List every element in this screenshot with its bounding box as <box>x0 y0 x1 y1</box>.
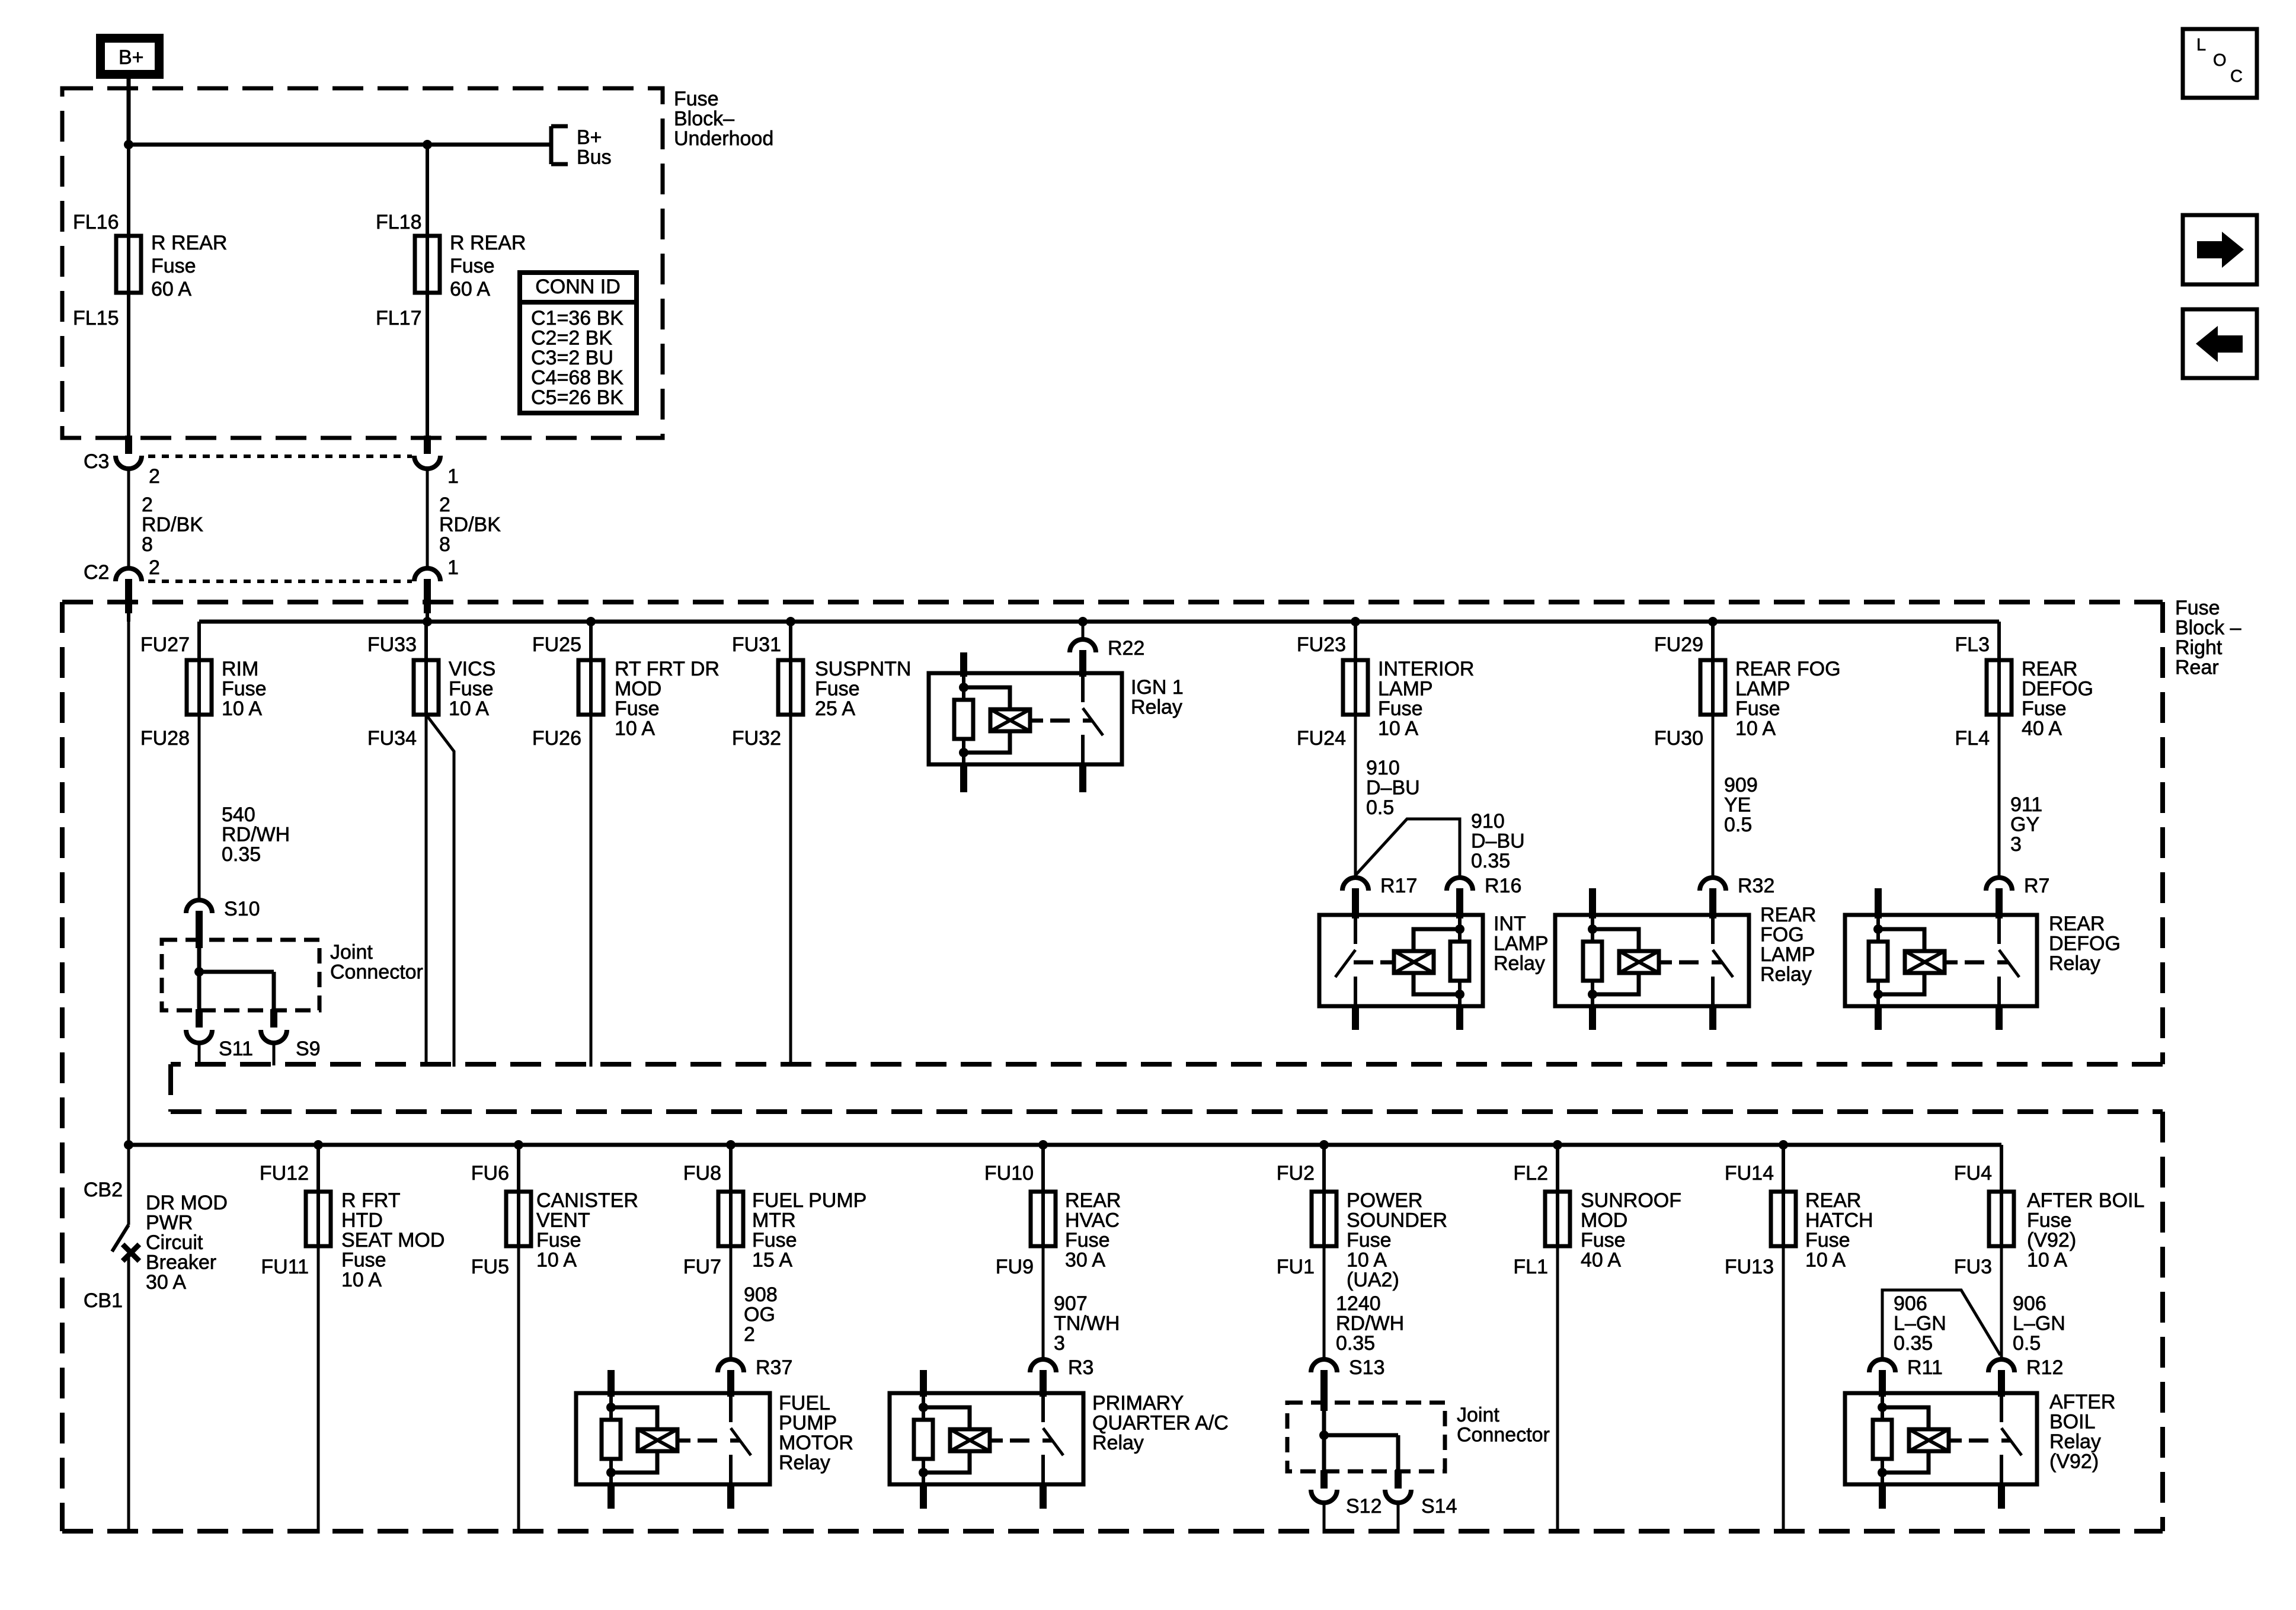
svg-text:907: 907 <box>1054 1292 1088 1315</box>
label VICS Fuse 10 A <box>449 658 495 720</box>
wire feed to fuse FU14 <box>1782 1145 1785 1192</box>
wire feed to fuse FU31 <box>789 622 792 660</box>
svg-text:FU34: FU34 <box>367 727 417 750</box>
svg-text:MTR: MTR <box>752 1209 796 1232</box>
svg-text:C: C <box>2230 67 2243 86</box>
svg-text:SUNROOF: SUNROOF <box>1581 1189 1681 1212</box>
svg-text:Right: Right <box>2175 636 2223 659</box>
svg-text:908: 908 <box>744 1283 778 1306</box>
fuse FU10/FU9 REAR HVAC 30 A <box>1031 1190 1056 1247</box>
svg-text:Relay: Relay <box>779 1452 830 1474</box>
svg-text:906: 906 <box>2013 1292 2046 1315</box>
svg-text:VICS: VICS <box>449 658 495 680</box>
svg-text:Circuit: Circuit <box>146 1231 203 1254</box>
svg-text:1: 1 <box>447 465 459 488</box>
svg-text:Fuse: Fuse <box>2175 597 2220 619</box>
svg-text:Fuse: Fuse <box>815 678 860 700</box>
svg-text:Breaker: Breaker <box>146 1251 216 1274</box>
svg-text:Block –: Block – <box>2175 617 2241 639</box>
relay AFTER BOIL (V92) <box>1845 1370 2115 1509</box>
svg-text:FL18: FL18 <box>376 211 422 233</box>
svg-text:HVAC: HVAC <box>1065 1209 1120 1232</box>
svg-text:LAMP: LAMP <box>1494 933 1549 955</box>
wire S11 down <box>198 1043 201 1065</box>
label FU14 <box>1725 1162 1774 1185</box>
svg-text:FU29: FU29 <box>1654 633 1703 656</box>
svg-text:10 A: 10 A <box>449 697 489 720</box>
wire 910 D-BU 0.5 <box>1355 715 1420 878</box>
svg-text:DR MOD: DR MOD <box>146 1192 228 1214</box>
dotted connector line C2 <box>148 580 412 583</box>
svg-text:FU23: FU23 <box>1297 633 1346 656</box>
svg-text:FU5: FU5 <box>471 1256 509 1278</box>
label FU10 <box>984 1162 1034 1185</box>
svg-text:FU24: FU24 <box>1297 727 1346 750</box>
svg-text:30 A: 30 A <box>146 1271 186 1294</box>
wire joint connector internal 2 <box>1324 1435 1398 1471</box>
junction dot feed/R22 <box>1078 617 1088 626</box>
label FU1 <box>1277 1256 1315 1278</box>
svg-text:FU8: FU8 <box>683 1162 721 1185</box>
svg-text:(V92): (V92) <box>2027 1229 2076 1251</box>
wire S12 down <box>1323 1503 1326 1534</box>
fuse block underhood dashed outline <box>62 88 663 438</box>
junction dot joint connector 2 <box>1319 1430 1329 1440</box>
label FU29 <box>1654 633 1703 656</box>
joint connector box (S13/S12/S14) <box>1287 1370 1445 1471</box>
svg-text:OG: OG <box>744 1304 775 1326</box>
svg-text:FU11: FU11 <box>261 1256 309 1278</box>
label FU4 <box>1954 1162 1992 1185</box>
svg-text:CONN ID: CONN ID <box>535 276 621 298</box>
svg-text:LAMP: LAMP <box>1735 678 1790 700</box>
svg-text:C1=36 BK: C1=36 BK <box>531 307 623 329</box>
svg-text:Relay: Relay <box>1131 696 1182 719</box>
svg-text:D–BU: D–BU <box>1366 777 1420 799</box>
svg-text:FU7: FU7 <box>683 1256 721 1278</box>
svg-text:AFTER: AFTER <box>2049 1391 2115 1413</box>
junction dot feed/FU8 <box>726 1140 736 1150</box>
svg-text:Fuse: Fuse <box>2027 1209 2072 1232</box>
svg-text:REAR: REAR <box>1805 1189 1861 1212</box>
label CANISTER VENT Fuse 10 A <box>536 1189 638 1272</box>
label FU12 <box>260 1162 309 1185</box>
junction dot feed/FL2 <box>1553 1140 1562 1150</box>
wire C2 to breaker <box>127 622 130 1225</box>
svg-text:CB2: CB2 <box>84 1179 123 1201</box>
svg-text:910: 910 <box>1471 810 1505 833</box>
fuse FU14/FU13 REAR HATCH 10 A <box>1771 1190 1796 1247</box>
svg-text:3: 3 <box>1054 1332 1065 1355</box>
label REAR HVAC Fuse 30 A <box>1065 1189 1121 1272</box>
svg-text:Connector: Connector <box>1457 1424 1550 1446</box>
svg-text:FL3: FL3 <box>1955 633 1990 656</box>
junction dot feed/FU25 <box>586 617 596 626</box>
wire feed to fuse FU10 <box>1041 1145 1045 1192</box>
svg-text:910: 910 <box>1366 757 1400 779</box>
splice S12 <box>1311 1470 1382 1518</box>
svg-text:DEFOG: DEFOG <box>2049 933 2121 955</box>
junction dot feed/FU23 <box>1351 617 1360 626</box>
svg-text:FU9: FU9 <box>996 1256 1034 1278</box>
wire 908 OG 2 <box>731 1246 778 1359</box>
junction dot feed/CB <box>124 1140 133 1150</box>
svg-text:10 A: 10 A <box>1735 718 1776 740</box>
node B+ bus junction dot <box>124 140 133 149</box>
svg-text:R11: R11 <box>1907 1356 1943 1379</box>
svg-text:L–GN: L–GN <box>2013 1313 2065 1335</box>
svg-text:Fuse: Fuse <box>536 1229 581 1251</box>
label FU23 <box>1297 633 1346 656</box>
svg-text:(UA2): (UA2) <box>1347 1269 1399 1291</box>
svg-text:FL4: FL4 <box>1955 727 1990 750</box>
svg-text:FL17: FL17 <box>376 307 422 329</box>
svg-text:B+: B+ <box>577 126 602 149</box>
wire FU26 down <box>590 715 593 1067</box>
svg-text:RD/WH: RD/WH <box>1336 1313 1404 1335</box>
label Fuse Block - Right Rear <box>2175 597 2241 679</box>
svg-text:CANISTER: CANISTER <box>536 1189 638 1212</box>
svg-text:C5=26 BK: C5=26 BK <box>531 386 623 409</box>
svg-text:O: O <box>2213 51 2227 70</box>
fuse FU4/FU3 AFTER BOIL 10 A (V92) <box>1989 1190 2014 1247</box>
svg-text:QUARTER A/C: QUARTER A/C <box>1092 1412 1229 1435</box>
wire FU32 down <box>789 715 792 1067</box>
label FL3 <box>1955 633 1990 656</box>
svg-text:60 A: 60 A <box>151 278 191 300</box>
wire S14 down <box>1397 1503 1400 1534</box>
label FU34 <box>367 727 417 750</box>
wire feed to fuse FU27 <box>197 622 201 660</box>
svg-text:MOD: MOD <box>615 678 661 700</box>
splice arc R11 <box>1869 1356 1943 1379</box>
svg-text:C2=2 BK: C2=2 BK <box>531 327 612 350</box>
svg-text:Fuse: Fuse <box>2022 697 2067 720</box>
svg-text:Relay: Relay <box>2049 1430 2101 1453</box>
svg-text:C3: C3 <box>84 450 109 473</box>
wire 2 RD/BK 8 (right) <box>427 469 501 568</box>
wire bottom feed line <box>129 1143 2001 1147</box>
svg-text:(V92): (V92) <box>2049 1451 2099 1473</box>
svg-text:30 A: 30 A <box>1065 1249 1105 1272</box>
svg-text:Fuse: Fuse <box>1347 1229 1392 1251</box>
fuse FL3/FL4 REAR DEFOG 40 A <box>1987 659 2012 716</box>
label AFTER BOIL Fuse (V92) 10 A <box>2027 1189 2144 1272</box>
label INTERIOR LAMP Fuse 10 A <box>1378 658 1474 740</box>
svg-text:Bus: Bus <box>577 146 612 169</box>
svg-text:INTERIOR: INTERIOR <box>1378 658 1474 680</box>
svg-text:C4=68 BK: C4=68 BK <box>531 367 623 389</box>
fuse block right rear dashed outline (top box) <box>62 602 2163 1531</box>
svg-text:Fuse: Fuse <box>151 255 196 277</box>
svg-text:R REAR: R REAR <box>450 232 526 254</box>
relay FUEL PUMP MOTOR <box>576 1370 853 1509</box>
svg-text:INT: INT <box>1494 913 1526 935</box>
svg-text:Fuse: Fuse <box>222 678 267 700</box>
wire 906 L-GN 0.35 branch <box>1882 1290 2000 1359</box>
svg-text:S14: S14 <box>1421 1495 1457 1518</box>
label FUEL PUMP MTR Fuse 15 A <box>752 1189 866 1272</box>
svg-text:FL15: FL15 <box>73 307 119 329</box>
junction dot feed/FU2 <box>1319 1140 1329 1150</box>
label FL4 <box>1955 727 1990 750</box>
svg-text:L: L <box>2196 36 2206 55</box>
svg-text:VENT: VENT <box>536 1209 590 1232</box>
splice S13 <box>1311 1356 1385 1379</box>
svg-text:Fuse: Fuse <box>752 1229 797 1251</box>
fuse block right rear dashed outline (bottom box) <box>62 1112 2163 1531</box>
svg-text:FL1: FL1 <box>1513 1256 1548 1278</box>
svg-text:CB1: CB1 <box>84 1289 123 1312</box>
svg-text:FU28: FU28 <box>140 727 190 750</box>
wire 2 RD/BK 8 (left) <box>129 469 203 568</box>
junction dot feed/C2 pin1 <box>423 617 432 626</box>
wire FU34 down <box>425 715 428 1067</box>
fuse FU6/FU5 CANISTER VENT 10 A <box>506 1190 531 1247</box>
splice arc R22 <box>1070 622 1144 660</box>
junction dot feed/FU12 <box>314 1140 323 1150</box>
svg-text:R3: R3 <box>1068 1356 1093 1379</box>
splice arc R12 <box>1988 1356 2063 1379</box>
label Fuse Block-Underhood <box>674 88 773 150</box>
svg-text:LAMP: LAMP <box>1760 943 1815 966</box>
fuse FU8/FU7 FUEL PUMP MTR 15 A <box>718 1190 743 1247</box>
wire top feed line <box>199 620 1999 624</box>
svg-text:40 A: 40 A <box>1581 1249 1621 1272</box>
splice S9 <box>261 1009 321 1060</box>
label R REAR Fuse 60 A (right) <box>450 232 526 300</box>
wire feed to fuse FU23 <box>1354 622 1357 660</box>
svg-text:B+: B+ <box>119 46 144 69</box>
svg-text:Joint: Joint <box>330 941 373 964</box>
svg-text:Fuse: Fuse <box>1581 1229 1626 1251</box>
svg-text:FL2: FL2 <box>1513 1162 1548 1185</box>
B+ Bus terminal bracket <box>551 126 612 169</box>
svg-text:FU1: FU1 <box>1277 1256 1315 1278</box>
svg-text:8: 8 <box>439 533 450 556</box>
svg-text:0.35: 0.35 <box>1894 1332 1933 1355</box>
svg-text:RD/BK: RD/BK <box>142 514 203 536</box>
label FU24 <box>1297 727 1346 750</box>
svg-text:0.35: 0.35 <box>1336 1332 1375 1355</box>
wire FU34 branch diagonal <box>426 715 454 1067</box>
svg-text:REAR FOG: REAR FOG <box>1735 658 1841 680</box>
svg-text:2: 2 <box>439 494 450 516</box>
svg-text:FUEL: FUEL <box>779 1392 830 1414</box>
svg-text:S11: S11 <box>219 1038 253 1060</box>
wire bus to fuse FL18 <box>426 145 429 236</box>
svg-text:REAR: REAR <box>2049 913 2105 935</box>
svg-text:Fuse: Fuse <box>450 255 495 277</box>
svg-text:FU31: FU31 <box>732 633 781 656</box>
svg-text:FU13: FU13 <box>1725 1256 1774 1278</box>
fuse FU23/FU24 INTERIOR LAMP 10 A <box>1343 659 1368 716</box>
svg-text:10 A: 10 A <box>341 1269 382 1291</box>
svg-text:R16: R16 <box>1485 875 1521 897</box>
label FU25 <box>532 633 581 656</box>
fuse FU29/FU30 REAR FOG LAMP 10 A <box>1700 659 1725 716</box>
label FU31 <box>732 633 781 656</box>
battery feed B+ power symbol <box>96 34 164 79</box>
svg-text:R7: R7 <box>2024 875 2049 897</box>
svg-text:906: 906 <box>1894 1292 1927 1315</box>
svg-text:40 A: 40 A <box>2022 718 2062 740</box>
svg-text:R17: R17 <box>1380 875 1417 897</box>
label FU27 <box>140 633 190 656</box>
label SUSPNTN Fuse 25 A <box>815 658 911 720</box>
wire 906 L-GN 0.5 <box>2001 1246 2065 1359</box>
svg-text:10 A: 10 A <box>1378 718 1418 740</box>
LOC reference box <box>2183 29 2257 98</box>
svg-text:Block–: Block– <box>674 108 734 130</box>
svg-text:S12: S12 <box>1346 1495 1382 1518</box>
svg-text:RIM: RIM <box>222 658 258 680</box>
svg-text:FU2: FU2 <box>1277 1162 1315 1185</box>
svg-text:Rear: Rear <box>2175 657 2219 679</box>
svg-text:1240: 1240 <box>1336 1292 1381 1315</box>
label FU7 <box>683 1256 721 1278</box>
svg-text:DEFOG: DEFOG <box>2022 678 2093 700</box>
splice S11 <box>186 1009 253 1060</box>
svg-text:FU26: FU26 <box>532 727 581 750</box>
junction dot feed/FU29 <box>1708 617 1718 626</box>
svg-text:1: 1 <box>447 556 459 579</box>
fuse FU31/FU32 SUSPNTN 25 A <box>778 659 803 716</box>
label Joint Connector (upper) <box>330 941 423 984</box>
label Joint Connector (lower) <box>1457 1404 1550 1446</box>
svg-text:0.35: 0.35 <box>1471 850 1510 872</box>
wire feed to fuse FU12 <box>316 1145 320 1192</box>
wire feed to fuse FU8 <box>729 1145 733 1192</box>
svg-text:FU27: FU27 <box>140 633 190 656</box>
svg-text:2: 2 <box>149 465 160 488</box>
svg-text:10 A: 10 A <box>1347 1249 1387 1272</box>
dotted connector line C3 <box>148 454 412 458</box>
svg-text:AFTER BOIL: AFTER BOIL <box>2027 1189 2144 1212</box>
connector C3 pin 1 (right) <box>414 436 459 488</box>
wire 911 GY 3 <box>1999 715 2042 878</box>
svg-text:RT FRT DR: RT FRT DR <box>615 658 720 680</box>
label FL1 <box>1513 1256 1548 1278</box>
label REAR DEFOG Fuse 40 A <box>2022 658 2093 740</box>
svg-text:HATCH: HATCH <box>1805 1209 1873 1232</box>
svg-text:Relay: Relay <box>2049 952 2100 975</box>
wire 540 RD/WH 0.35 <box>199 715 290 900</box>
svg-text:MOD: MOD <box>1581 1209 1627 1232</box>
splice S14 <box>1385 1470 1457 1518</box>
label FU5 <box>471 1256 509 1278</box>
circuit breaker CB2/CB1 DR MOD PWR 30 A <box>84 1179 228 1534</box>
splice arc R17 <box>1342 875 1417 897</box>
label FU3 <box>1954 1256 1992 1278</box>
wire FL15 to connector C3 <box>127 293 130 437</box>
splice arc R37 <box>718 1356 792 1379</box>
label POWER SOUNDER Fuse 10 A (UA2) <box>1347 1189 1447 1291</box>
svg-text:540: 540 <box>222 804 255 826</box>
svg-text:R12: R12 <box>2026 1356 2063 1379</box>
relay REAR FOG LAMP <box>1555 888 1816 1030</box>
svg-text:10 A: 10 A <box>615 718 655 740</box>
svg-text:FU14: FU14 <box>1725 1162 1774 1185</box>
label R FRT HTD SEAT MOD Fuse 10 A <box>341 1189 445 1291</box>
splice arc R32 <box>1700 875 1774 897</box>
connector C2 pin 2 (left) <box>84 556 160 622</box>
svg-text:FU30: FU30 <box>1654 727 1703 750</box>
svg-text:R REAR: R REAR <box>151 232 227 254</box>
wire feed to fuse FU2 <box>1322 1145 1326 1192</box>
svg-text:PUMP: PUMP <box>779 1412 837 1435</box>
wire B+ bus horizontal <box>129 143 551 147</box>
label FU9 <box>996 1256 1034 1278</box>
wire FU13 down <box>1782 1246 1785 1534</box>
wire FU5 down <box>517 1246 520 1534</box>
svg-text:RD/BK: RD/BK <box>439 514 501 536</box>
svg-text:MOTOR: MOTOR <box>779 1432 853 1454</box>
label FL2 <box>1513 1162 1548 1185</box>
relay REAR DEFOG <box>1845 888 2121 1030</box>
label FL17 <box>376 307 422 329</box>
svg-text:Joint: Joint <box>1457 1404 1499 1426</box>
svg-text:POWER: POWER <box>1347 1189 1422 1212</box>
label FU32 <box>732 727 781 750</box>
svg-text:R32: R32 <box>1738 875 1774 897</box>
label FU2 <box>1277 1162 1315 1185</box>
label RIM Fuse 10 A <box>222 658 267 720</box>
svg-text:Fuse: Fuse <box>1378 697 1423 720</box>
joint connector box (S10/S11/S9) <box>162 911 319 1010</box>
junction dot joint connector <box>194 967 204 977</box>
svg-text:Fuse: Fuse <box>1805 1229 1850 1251</box>
wire 1240 RD/WH 0.35 <box>1324 1246 1404 1359</box>
svg-text:Fuse: Fuse <box>674 88 719 110</box>
svg-text:FU33: FU33 <box>367 633 417 656</box>
svg-text:2: 2 <box>744 1323 755 1346</box>
svg-text:S13: S13 <box>1349 1356 1385 1379</box>
wire feed to fuse FU33 <box>424 622 428 660</box>
svg-text:RD/WH: RD/WH <box>222 824 290 846</box>
label FU33 <box>367 633 417 656</box>
wire feed to fuse FU6 <box>517 1145 520 1192</box>
svg-text:10 A: 10 A <box>1805 1249 1846 1272</box>
svg-text:REAR: REAR <box>1065 1189 1121 1212</box>
CONN ID table <box>520 273 637 413</box>
arrow left box <box>2183 309 2257 378</box>
svg-text:PRIMARY: PRIMARY <box>1092 1392 1184 1414</box>
svg-text:SUSPNTN: SUSPNTN <box>815 658 911 680</box>
svg-text:C2: C2 <box>84 561 109 584</box>
label FU26 <box>532 727 581 750</box>
svg-text:D–BU: D–BU <box>1471 830 1525 853</box>
svg-text:911: 911 <box>2010 793 2042 816</box>
svg-text:IGN 1: IGN 1 <box>1131 676 1184 699</box>
arrow right box <box>2183 215 2257 284</box>
label R REAR Fuse 60 A (left) <box>151 232 227 300</box>
wire feed corner to FL3 <box>1997 622 2001 660</box>
wire feed corner to FU4 <box>2000 1145 2003 1192</box>
svg-text:10 A: 10 A <box>222 697 262 720</box>
svg-text:SOUNDER: SOUNDER <box>1347 1209 1447 1232</box>
svg-text:FU6: FU6 <box>471 1162 509 1185</box>
connector C2 pin 1 (right) <box>414 556 459 622</box>
junction dot feed/FU31 <box>786 617 795 626</box>
label FU30 <box>1654 727 1703 750</box>
svg-text:HTD: HTD <box>341 1209 383 1232</box>
svg-text:R22: R22 <box>1108 637 1144 660</box>
svg-text:PWR: PWR <box>146 1212 193 1234</box>
label FU8 <box>683 1162 721 1185</box>
svg-text:S9: S9 <box>296 1038 321 1060</box>
svg-text:FUEL PUMP: FUEL PUMP <box>752 1189 866 1212</box>
